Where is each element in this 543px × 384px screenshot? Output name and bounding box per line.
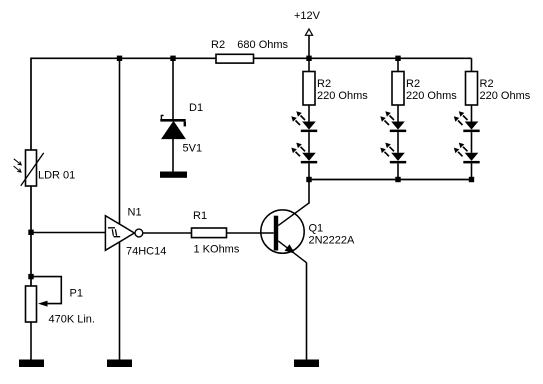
svg-text:5V1: 5V1 bbox=[183, 143, 203, 155]
label 680 Ohms bbox=[237, 39, 288, 51]
wire: string2 resistor to LED1 bbox=[397, 105, 399, 122]
label 220 Ohms string1 bbox=[317, 90, 368, 102]
wire: IC supply vertical (above gate) bbox=[119, 58, 121, 224]
ground (Q1 emitter) bbox=[294, 360, 319, 368]
svg-text:LDR 01: LDR 01 bbox=[38, 170, 75, 182]
LED arrows string2-1 bbox=[380, 111, 394, 125]
node: rail / string2 bottom junction bbox=[395, 177, 400, 182]
resistor R2 string3 (220 Ohms) bbox=[466, 72, 478, 106]
resistor R2 (680 Ohms) bbox=[216, 54, 254, 63]
svg-text:680 Ohms: 680 Ohms bbox=[237, 39, 288, 51]
wire: +12V stem bbox=[308, 35, 310, 58]
LED D-string3-1 bbox=[463, 122, 479, 133]
svg-text:N1: N1 bbox=[128, 207, 142, 219]
label 1 KOhms bbox=[194, 244, 240, 256]
ground (IC) bbox=[107, 360, 132, 368]
wire: string2 LED1 to LED2 bbox=[397, 132, 399, 153]
wire: string1 LED2 to rail bbox=[308, 163, 310, 179]
node: rail / IC supply junction bbox=[117, 56, 122, 61]
svg-text:D1: D1 bbox=[189, 102, 203, 114]
LED arrows string1-1 bbox=[291, 111, 305, 125]
label 5V1 bbox=[183, 143, 203, 155]
wire: string1 LED1 to LED2 bbox=[308, 132, 310, 153]
node: LDR / inverter input junction bbox=[28, 230, 33, 235]
LED D-string1-1 bbox=[301, 122, 317, 133]
wire: left vertical from rail to LDR bbox=[30, 58, 32, 151]
wire: string2 top bbox=[397, 58, 399, 71]
label P1 bbox=[70, 288, 83, 300]
svg-text:+12V: +12V bbox=[294, 10, 321, 22]
wire: string3 LED2 to rail bbox=[471, 163, 473, 179]
wire: D1 cathode wire bbox=[172, 58, 174, 119]
wire: string1 resistor to LED1 bbox=[308, 105, 310, 122]
wire: P1 wiper loop bbox=[31, 277, 61, 304]
P1 wiper arrow bbox=[38, 301, 48, 307]
node: rail / string3 bottom junction bbox=[469, 177, 474, 182]
svg-text:R2: R2 bbox=[211, 39, 225, 51]
label 470K Lin. bbox=[49, 314, 95, 326]
wire: P1 bottom to ground bbox=[30, 322, 32, 360]
resistor R2 string1 (220 Ohms) bbox=[303, 72, 315, 106]
wire: IC supply vertical (below gate) to ground bbox=[119, 243, 121, 360]
label 220 Ohms string3 bbox=[480, 90, 531, 102]
svg-text:74HC14: 74HC14 bbox=[126, 246, 166, 258]
node: rail / D1 junction bbox=[170, 56, 175, 61]
svg-text:220 Ohms: 220 Ohms bbox=[480, 90, 531, 102]
svg-text:220 Ohms: 220 Ohms bbox=[406, 90, 457, 102]
label 220 Ohms string2 bbox=[406, 90, 457, 102]
wire: emitter vertical to ground bbox=[306, 263, 308, 360]
label 2N2222A bbox=[309, 235, 356, 247]
node: rail / collector junction bbox=[306, 177, 311, 182]
wire: string3 top bbox=[471, 58, 473, 71]
svg-text:470K Lin.: 470K Lin. bbox=[49, 314, 95, 326]
op-amp/inverter N1 74HC14 bbox=[105, 216, 142, 251]
ground (P1) bbox=[19, 360, 44, 368]
wire: top rail bbox=[31, 57, 472, 59]
LDR light arrow 2 bbox=[14, 166, 22, 172]
LED arrows string1-2 bbox=[291, 143, 305, 157]
wire: string2 LED2 to rail bbox=[397, 163, 399, 179]
LED D-string2-2 bbox=[390, 153, 406, 164]
LED arrows string2-2 bbox=[380, 143, 394, 157]
label R2 string3 bbox=[480, 78, 494, 90]
label R2 string1 bbox=[317, 78, 331, 90]
label R1 bbox=[193, 210, 207, 222]
wire: LED bottom rail bbox=[309, 179, 472, 181]
svg-text:R2: R2 bbox=[317, 78, 331, 90]
LED arrows string3-2 bbox=[454, 143, 468, 157]
power +12V arrow bbox=[305, 29, 312, 35]
label 74HC14 bbox=[126, 246, 166, 258]
wire: inverter input bbox=[31, 232, 105, 234]
wire: LDR bottom to P1 bbox=[30, 186, 32, 286]
svg-text:R2: R2 bbox=[480, 78, 494, 90]
wire: string1 top bbox=[308, 58, 310, 71]
label R2 bbox=[211, 39, 225, 51]
wire: inverter output to R1 bbox=[143, 232, 192, 234]
LED D-string2-1 bbox=[390, 122, 406, 133]
svg-text:2N2222A: 2N2222A bbox=[309, 235, 356, 247]
node: P1 top junction bbox=[28, 274, 33, 279]
zener diode D1 bbox=[160, 115, 186, 138]
svg-text:1 KOhms: 1 KOhms bbox=[194, 244, 240, 256]
svg-text:R2: R2 bbox=[406, 78, 420, 90]
potentiometer P1 bbox=[26, 286, 37, 322]
label +12V bbox=[294, 10, 321, 22]
resistor R1 bbox=[192, 228, 227, 238]
wire: R1 to Q1 base bbox=[227, 232, 274, 234]
label N1 bbox=[128, 207, 142, 219]
svg-text:220 Ohms: 220 Ohms bbox=[317, 90, 368, 102]
label D1 bbox=[189, 102, 203, 114]
node: rail / +12V / string1 junction bbox=[306, 56, 311, 61]
LED arrows string3-1 bbox=[454, 111, 468, 125]
LDR light arrow 1 bbox=[14, 159, 21, 165]
resistor R2 string2 (220 Ohms) bbox=[392, 72, 404, 106]
ground (D1) bbox=[160, 172, 187, 178]
LED D-string3-2 bbox=[463, 153, 479, 164]
transistor Q1 bbox=[261, 203, 309, 263]
wire: D1 anode to ground bbox=[172, 139, 174, 172]
svg-text:P1: P1 bbox=[70, 288, 83, 300]
label LDR 01 bbox=[38, 170, 75, 182]
label R2 string2 bbox=[406, 78, 420, 90]
node: rail / string2 junction bbox=[395, 56, 400, 61]
photoresistor LDR 01 bbox=[21, 150, 44, 186]
svg-text:R1: R1 bbox=[193, 210, 207, 222]
svg-text:Q1: Q1 bbox=[309, 223, 324, 235]
wire: collector vertical bbox=[308, 180, 310, 204]
label Q1 bbox=[309, 223, 324, 235]
wire: string3 resistor to LED1 bbox=[471, 105, 473, 122]
wire: string3 LED1 to LED2 bbox=[471, 132, 473, 153]
LED D-string1-2 bbox=[301, 153, 317, 164]
